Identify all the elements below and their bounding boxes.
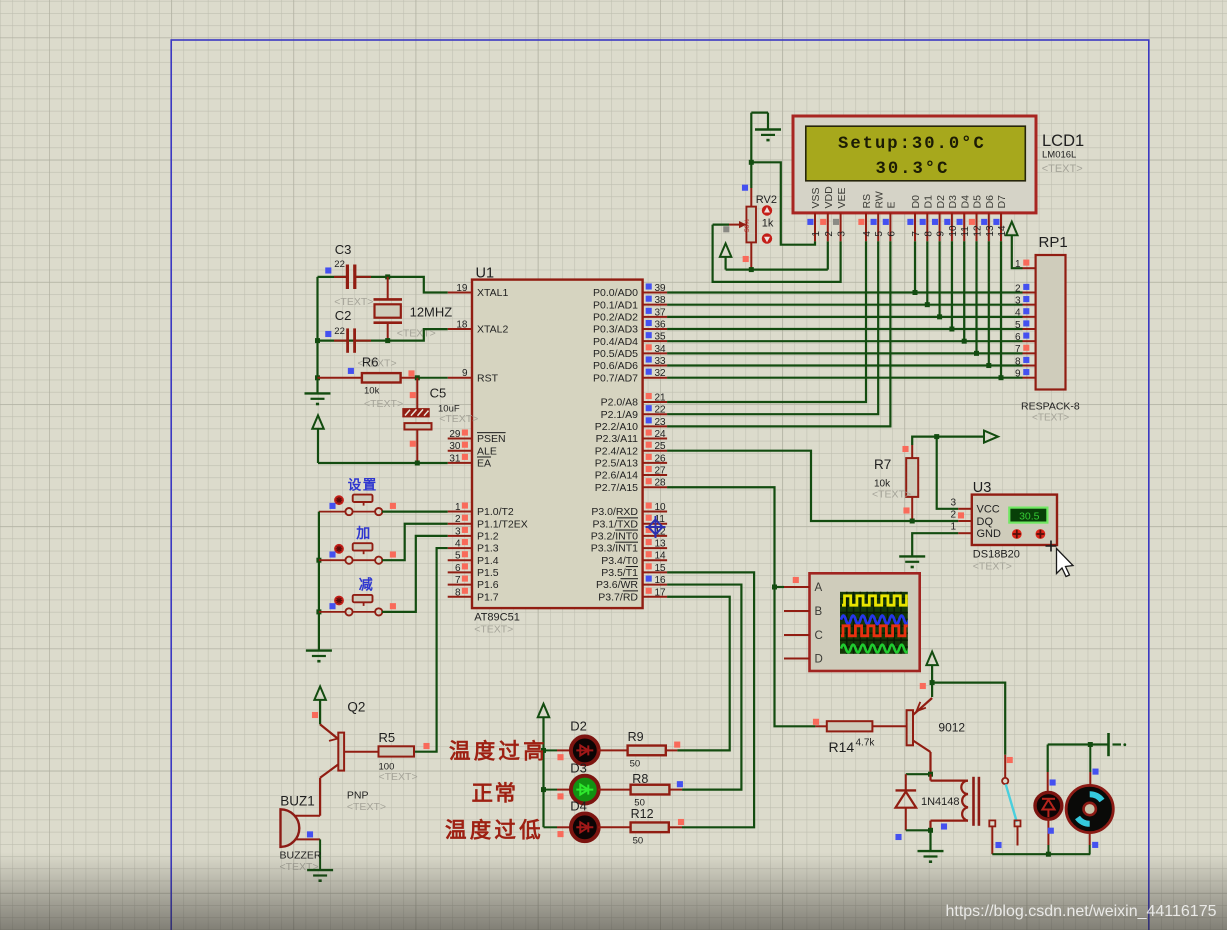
node square R6 right [408, 370, 414, 376]
wire D3 cathode to R8 [598, 789, 631, 791]
junction D5 [974, 351, 979, 356]
svg-text:10: 10 [948, 225, 959, 237]
RV2 up button [762, 205, 772, 215]
node square oscilloscope A [793, 577, 799, 583]
pin P1.3 (pin 4) of U1 [448, 547, 472, 549]
pin 7 of RP1 [1023, 352, 1036, 354]
node square R14 left [813, 719, 819, 725]
U3 down button [1036, 529, 1046, 539]
svg-text:D5: D5 [972, 195, 984, 209]
led D2 [571, 737, 599, 765]
svg-text:P3.4/T0: P3.4/T0 [601, 555, 638, 567]
relay switch common contact [1002, 778, 1008, 784]
pin P1.0/T2 (pin 1) of U1 [448, 511, 472, 513]
svg-text:P1.2: P1.2 [477, 531, 499, 543]
svg-text:P1.0/T2: P1.0/T2 [477, 506, 514, 518]
svg-text:15: 15 [655, 563, 667, 574]
wire button2 to P1.1 [352, 559, 375, 561]
node square Q2 emitter [312, 712, 318, 718]
node square R12 right [678, 819, 684, 825]
node square D4 [557, 831, 563, 837]
svg-text:38: 38 [655, 295, 667, 306]
svg-text:P0.0/AD0: P0.0/AD0 [593, 287, 638, 299]
svg-text:1: 1 [455, 502, 461, 513]
pin C of oscilloscope [784, 634, 810, 636]
svg-text:P2.2/A10: P2.2/A10 [595, 421, 638, 433]
svg-text:3: 3 [455, 526, 461, 537]
pin ALE (pin 30) of U1 [448, 450, 472, 452]
junction D6 [986, 363, 991, 368]
junction RV2 bottom VDD net [749, 267, 754, 272]
node square diode left [895, 834, 901, 840]
pin 21 of U1 [643, 401, 668, 403]
svg-text:正常: 正常 [472, 781, 518, 806]
ground for buttons [306, 649, 332, 651]
node square C3 [325, 267, 331, 273]
pin 15 of U1 [643, 571, 668, 573]
svg-text:https://blog.csdn.net/weixin_4: https://blog.csdn.net/weixin_44116175 [945, 903, 1216, 920]
svg-text:6: 6 [1015, 332, 1021, 343]
svg-text:温度过高: 温度过高 [449, 739, 548, 764]
wire diode bottom to ground [906, 829, 931, 831]
ground below relay [918, 850, 944, 852]
svg-text:D6: D6 [984, 195, 996, 209]
oscilloscope body [810, 573, 920, 671]
lcd screen [806, 126, 1026, 181]
wire button3 left [319, 611, 346, 613]
node square relay switch [1007, 757, 1013, 763]
junction D7 [999, 375, 1004, 380]
svg-text:P2.3/A11: P2.3/A11 [596, 433, 639, 445]
node square D3 [557, 793, 563, 799]
svg-text:P3.7/RD: P3.7/RD [598, 591, 638, 603]
pin P1.7 (pin 8) of U1 [448, 596, 472, 598]
svg-text:D1: D1 [923, 195, 935, 209]
svg-text:P3.1/TXD: P3.1/TXD [592, 518, 638, 530]
wire to indicator led [1047, 745, 1049, 773]
ground above RV2 [751, 111, 768, 113]
wire R8 to P3.6 [669, 789, 682, 791]
wire emitter to relay switch [931, 683, 933, 697]
pin RST (pin 9) of U1 [448, 377, 472, 379]
node square BUZ1 [307, 831, 313, 837]
relay switch lever [1006, 784, 1017, 822]
svg-text:30: 30 [449, 441, 461, 452]
wire R9 to P3.7 [666, 749, 678, 751]
svg-text:P0.4/AD4: P0.4/AD4 [593, 336, 638, 348]
svg-text:GND: GND [977, 528, 1002, 540]
node square &#21152; right [390, 551, 396, 557]
pin 38 of U1 [643, 304, 668, 306]
svg-text:Q2: Q2 [347, 700, 365, 715]
svg-text:PSEN: PSEN [477, 433, 506, 445]
node square R6 left [348, 368, 354, 374]
junction R6-C5 [415, 375, 420, 380]
pin D of oscilloscope [784, 658, 810, 660]
svg-text:BUZ1: BUZ1 [280, 793, 315, 808]
node square RV2 wiper [723, 226, 729, 232]
crystal X1 12MHZ [387, 277, 389, 299]
power arrow VCC right [984, 431, 998, 443]
wire button2 left [319, 559, 346, 561]
node square R7 top [902, 446, 908, 452]
ground bar right [1107, 733, 1110, 756]
wire anode D2 [544, 749, 558, 751]
node square C2 [325, 331, 331, 337]
svg-text:<TEXT>: <TEXT> [439, 413, 478, 425]
power arrow for RP1 [1006, 222, 1018, 236]
resistor R5 [379, 746, 415, 756]
svg-text:R8: R8 [632, 772, 648, 786]
svg-text:9012: 9012 [938, 721, 965, 735]
pin 17 of U1 [643, 596, 668, 598]
svg-text:B: B [815, 606, 823, 618]
node square R9 right [674, 742, 680, 748]
svg-text:31: 31 [449, 453, 461, 464]
svg-text:4: 4 [862, 231, 873, 237]
pin 2 of RP1 [1023, 292, 1036, 294]
svg-text:P3.2/INT0: P3.2/INT0 [591, 531, 638, 543]
svg-text:加: 加 [355, 525, 372, 541]
wire to A pin [775, 586, 785, 588]
svg-text:10: 10 [655, 502, 667, 513]
pin 35 of U1 [643, 340, 668, 342]
svg-text:P1.4: P1.4 [477, 555, 499, 567]
pin 16 of U1 [643, 584, 668, 586]
junction D0 [913, 290, 918, 295]
junction VCC net [934, 434, 939, 439]
wire P0.6 bus [667, 364, 1022, 366]
lcd LCD1 LM016L body [793, 116, 1036, 213]
svg-text:30.3°C: 30.3°C [876, 160, 950, 179]
node square RV2 top [742, 185, 748, 191]
left vertical wire [316, 277, 318, 394]
capacitor C5 10uF [416, 378, 418, 409]
svg-text:R9: R9 [628, 730, 644, 744]
wire D3 vertical [951, 241, 953, 329]
svg-text:R6: R6 [362, 354, 379, 369]
pin 1 of RP1 [1023, 267, 1036, 269]
junction D2 [937, 314, 942, 319]
push button &#21152; [345, 557, 352, 564]
pin XTAL1 (pin 19) of U1 [448, 292, 472, 294]
svg-text:R14: R14 [829, 739, 855, 755]
pin 13 of U1 [643, 547, 668, 549]
svg-text:32: 32 [655, 368, 667, 379]
pin 3 of RP1 [1023, 304, 1036, 306]
svg-text:21: 21 [655, 393, 667, 404]
pin 22 of U1 [643, 413, 668, 415]
svg-text:P2.5/A13: P2.5/A13 [595, 457, 638, 469]
wire button3 to P1.2 [352, 611, 375, 613]
svg-text:RST: RST [477, 372, 499, 384]
svg-text:13: 13 [655, 539, 667, 550]
vignette [0, 848, 1227, 930]
resistor R7 [911, 445, 913, 458]
junction C5-EA wire [415, 461, 420, 466]
junction left vertical R6 row [315, 375, 320, 380]
svg-text:<TEXT>: <TEXT> [474, 624, 513, 636]
junction C3-crystal [385, 274, 390, 279]
wire P1.3 to R5 [414, 548, 448, 752]
svg-text:P2.6/A14: P2.6/A14 [595, 470, 638, 482]
wire D7 vertical [1000, 241, 1002, 377]
sheet border [171, 40, 1149, 930]
pin 2 DQ of U3 [958, 520, 972, 522]
wire P0.1 bus [667, 304, 1022, 306]
node square led top [1050, 779, 1056, 785]
wire VDD net [726, 269, 828, 271]
mcu U1 AT89C51 body [472, 280, 643, 608]
svg-text:1N4148: 1N4148 [921, 796, 960, 808]
junction left vertical C2 row [315, 338, 320, 343]
junction LED D3 anode [541, 787, 546, 792]
pin 9 of RP1 [1023, 377, 1036, 379]
waveform D green [841, 645, 909, 653]
svg-text:6: 6 [455, 563, 461, 574]
junction D3 [949, 327, 954, 332]
oscilloscope screen [840, 592, 908, 654]
svg-text:<TEXT>: <TEXT> [973, 561, 1012, 573]
motor M fan [1089, 745, 1091, 773]
wire D1 vertical [926, 241, 928, 304]
svg-text:17: 17 [655, 587, 667, 598]
node square C5 bottom [410, 441, 416, 447]
pin XTAL2 (pin 18) of U1 [448, 328, 472, 330]
led indicator red [1047, 772, 1049, 793]
node square D2 [557, 754, 563, 760]
junction button2 column [316, 558, 321, 563]
node square &#20943; left [329, 603, 335, 609]
pin EA (pin 31) of U1 [448, 462, 472, 464]
svg-text:2: 2 [950, 510, 956, 521]
svg-text:VDD: VDD [823, 186, 835, 209]
node square relay right contact [995, 842, 1001, 848]
svg-text:7: 7 [911, 231, 922, 237]
svg-text:RV2: RV2 [756, 194, 777, 206]
pin 12 of U1 [643, 535, 668, 537]
power arrow VDD [720, 243, 732, 257]
svg-text:P0.7/AD7: P0.7/AD7 [593, 372, 638, 384]
pin B of oscilloscope [784, 610, 810, 612]
svg-text:18: 18 [456, 320, 468, 331]
pin 39 of U1 [643, 292, 668, 294]
svg-text:29: 29 [449, 429, 461, 440]
svg-text:8: 8 [455, 587, 461, 598]
svg-text:1: 1 [811, 231, 822, 237]
resistor R9 [628, 746, 666, 756]
svg-text:22: 22 [334, 259, 345, 270]
svg-text:8: 8 [923, 231, 934, 237]
junction DQ at R7 [910, 519, 915, 524]
svg-text:PNP: PNP [347, 790, 369, 802]
pin 3 VCC of U3 [958, 508, 972, 510]
resistor pack RP1 body [1036, 255, 1066, 390]
svg-text:RP1: RP1 [1039, 234, 1068, 251]
svg-text:AT89C51: AT89C51 [474, 612, 520, 624]
svg-text:Setup:30.0°C: Setup:30.0°C [838, 135, 986, 154]
junction D4 [962, 339, 967, 344]
svg-text:33: 33 [655, 356, 667, 367]
svg-text:8: 8 [1015, 356, 1021, 367]
svg-text:R12: R12 [631, 807, 654, 821]
wire P0.5 bus [667, 352, 1022, 354]
pin 23 of U1 [643, 425, 668, 427]
wire P0.2 bus [667, 316, 1022, 318]
svg-text:2: 2 [824, 231, 835, 237]
mouse cursor [1046, 541, 1074, 577]
junction oscilloscope A [772, 585, 777, 590]
wire D2 vertical [938, 241, 940, 317]
wire button1 left [319, 511, 346, 513]
svg-text:减: 减 [359, 577, 375, 593]
wire anode D4 [544, 826, 558, 828]
waveform A yellow [841, 596, 919, 653]
wire P2.7 to oscilloscope A and R14 [667, 487, 815, 726]
svg-text:9: 9 [1015, 368, 1021, 379]
svg-text:VCC: VCC [977, 504, 1000, 516]
svg-text:RW: RW [873, 191, 885, 208]
interactive marker of &#35774;&#32622; [334, 495, 344, 505]
junction 9012 collector [928, 772, 933, 777]
svg-text:XTAL2: XTAL2 [477, 324, 508, 336]
node square C5 top [410, 392, 416, 398]
svg-text:P3.0/RXD: P3.0/RXD [591, 506, 638, 518]
svg-text:19: 19 [456, 283, 468, 294]
svg-text:U3: U3 [973, 480, 992, 496]
svg-text:11: 11 [960, 226, 971, 237]
capacitor C3 [346, 265, 349, 290]
power arrow 9012 [926, 652, 938, 666]
pin 27 of U1 [643, 474, 668, 476]
button ground column [318, 512, 320, 651]
svg-text:1k: 1k [762, 218, 774, 230]
svg-text:P3.6/WR: P3.6/WR [596, 579, 638, 591]
svg-text:6: 6 [886, 231, 897, 237]
svg-text:D7: D7 [996, 195, 1008, 209]
svg-text:P3.3/INT1: P3.3/INT1 [591, 543, 638, 555]
svg-text:50: 50 [633, 836, 644, 847]
svg-text:22: 22 [655, 405, 667, 416]
junction RV2 top [749, 160, 754, 165]
pin 11 of U1 [643, 523, 668, 525]
svg-text:26: 26 [655, 453, 667, 464]
pin P1.1/T2EX (pin 2) of U1 [448, 523, 472, 525]
svg-text:P1.3: P1.3 [477, 543, 499, 555]
power arrow for EA net [312, 415, 324, 429]
potentiometer RV2 [750, 188, 752, 207]
svg-text:P0.6/AD6: P0.6/AD6 [593, 360, 638, 372]
svg-text:P2.4/A12: P2.4/A12 [595, 445, 638, 457]
svg-text:<TEXT>: <TEXT> [334, 296, 373, 308]
svg-text:P1.1/T2EX: P1.1/T2EX [477, 518, 528, 530]
svg-text:P0.5/AD5: P0.5/AD5 [593, 348, 638, 360]
led D4 [571, 813, 599, 841]
led D3 [571, 776, 599, 804]
svg-text:24: 24 [655, 429, 667, 440]
pin 8 of RP1 [1023, 365, 1036, 367]
wire D0 vertical [914, 241, 916, 292]
svg-text:5: 5 [1015, 320, 1021, 331]
wire RV2 top net [750, 113, 752, 188]
wire collector node [906, 773, 931, 775]
node square led bottom [1048, 828, 1054, 834]
svg-text:3: 3 [837, 231, 848, 237]
pin 5 of RP1 [1023, 328, 1036, 330]
wire P0.3 bus [667, 328, 1022, 330]
svg-text:<TEXT>: <TEXT> [872, 489, 911, 501]
pin 24 of U1 [643, 438, 668, 440]
junction 9012 emitter [930, 680, 935, 685]
pin 33 of U1 [643, 365, 668, 367]
resistor R12 [631, 822, 669, 832]
svg-text:23: 23 [655, 417, 667, 428]
pin 37 of U1 [643, 316, 668, 318]
wire E to P2.2 [667, 241, 890, 426]
svg-text:<TEXT>: <TEXT> [379, 771, 418, 783]
relay contact right [1015, 820, 1021, 826]
node square 9012 emitter [920, 683, 926, 689]
wire P0.0 bus [667, 291, 1022, 293]
svg-text:14: 14 [655, 551, 667, 562]
svg-text:P2.7/A15: P2.7/A15 [595, 482, 638, 494]
svg-text:5: 5 [874, 231, 885, 237]
svg-text:P2.0/A8: P2.0/A8 [601, 397, 639, 409]
node square &#21152; left [329, 551, 335, 557]
relay switch common stub [1004, 755, 1006, 778]
svg-text:R5: R5 [379, 730, 396, 745]
svg-text:D3: D3 [570, 761, 587, 776]
svg-text:R7: R7 [874, 457, 891, 472]
wire VCC net R7 [912, 437, 984, 445]
relay coil RL [929, 774, 931, 780]
svg-text:VSS: VSS [810, 187, 822, 208]
svg-text:P1.6: P1.6 [477, 579, 499, 591]
wire R12 to P3.5 [669, 826, 682, 828]
interactive marker of &#20943; [334, 596, 344, 606]
pin P1.5 (pin 6) of U1 [448, 571, 472, 573]
svg-text:E: E [886, 201, 898, 208]
RV2 wiper arrow [713, 224, 729, 226]
capacitor C2 [346, 328, 349, 352]
svg-text:22: 22 [334, 326, 345, 337]
wire VCC to U3 [937, 437, 959, 509]
svg-text:4: 4 [455, 539, 461, 550]
resistor R14 [827, 721, 873, 731]
svg-text:4.7k: 4.7k [856, 738, 876, 749]
pin 10 of U1 [643, 511, 668, 513]
transistor Q2 PNP [338, 733, 344, 771]
svg-text:P0.3/AD3: P0.3/AD3 [593, 324, 638, 336]
RV2 down button [762, 233, 772, 243]
interactive marker of &#21152; [334, 544, 344, 554]
svg-text:P0.2/AD2: P0.2/AD2 [593, 311, 638, 323]
junction motor top [1088, 742, 1093, 747]
wire P0.7 bus [667, 377, 1022, 379]
node square R5 right [423, 743, 429, 749]
svg-text:2: 2 [1015, 283, 1021, 294]
svg-text:温度过低: 温度过低 [445, 818, 544, 843]
pin 25 of U1 [643, 450, 668, 452]
svg-text:D2: D2 [935, 195, 947, 209]
wire GND of U3 [912, 533, 958, 556]
svg-text:2: 2 [455, 514, 461, 525]
svg-text:EA: EA [477, 457, 491, 469]
svg-text:DQ: DQ [977, 516, 994, 528]
pin P1.4 (pin 5) of U1 [448, 559, 472, 561]
node square RV2 bottom [743, 256, 749, 262]
svg-text:C: C [815, 630, 823, 642]
